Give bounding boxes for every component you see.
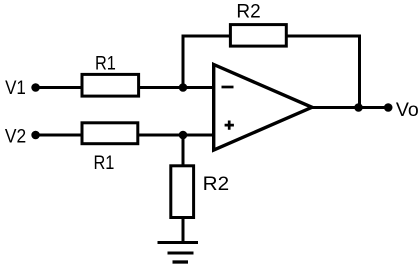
wire V2 input to R1: [34, 134, 83, 137]
terminal dot V1: [31, 83, 40, 92]
wire R2 down to ground: [182, 218, 185, 245]
junction node output/feedback: [354, 103, 363, 112]
ground: [158, 243, 199, 263]
svg-text:Vo: Vo: [396, 99, 419, 121]
svg-text:R1: R1: [94, 152, 115, 174]
resistor R2 (vertical, to ground): [171, 166, 194, 218]
svg-text:R2: R2: [203, 173, 230, 195]
terminal dot Vo: [384, 103, 393, 112]
resistor R2 (feedback): [230, 25, 286, 46]
wire R1 to inverting input node: [138, 86, 215, 89]
wire feedback rail to R2: [182, 35, 231, 38]
op-amp inverting pin minus sign: [222, 86, 234, 89]
wire node B down to R2: [182, 135, 185, 166]
junction node B (non-inverting input): [179, 131, 188, 140]
op-amp U1: [214, 65, 312, 151]
resistor R1 (bottom, V2 branch): [82, 123, 138, 144]
svg-text:R1: R1: [95, 53, 116, 75]
wire V1 input to R1: [34, 86, 83, 89]
svg-text:V2: V2: [5, 126, 26, 148]
terminal dot V2: [31, 131, 40, 140]
resistor R1 (top, V1 branch): [82, 74, 139, 96]
wire node A up to feedback rail: [182, 35, 185, 90]
wire R2 to right corner: [287, 35, 361, 38]
wire R1 to non-inverting input node: [138, 134, 215, 137]
wire right corner down to output: [358, 35, 361, 108]
svg-text:R2: R2: [236, 0, 260, 22]
junction node A (inverting input): [179, 83, 188, 92]
op-amp non-inverting pin plus sign: [225, 121, 234, 130]
wire op-amp output to Vo: [309, 106, 390, 109]
svg-text:V1: V1: [5, 77, 26, 99]
